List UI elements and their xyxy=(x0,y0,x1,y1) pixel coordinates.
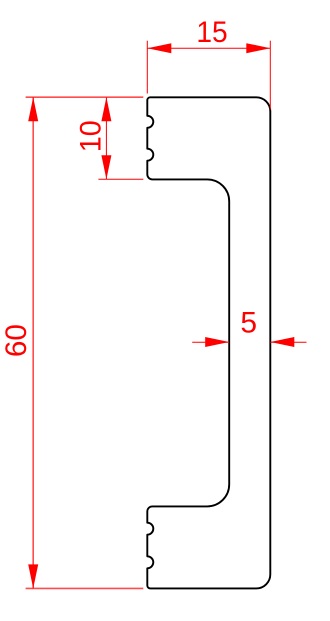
svg-text:60: 60 xyxy=(0,324,33,357)
svg-text:15: 15 xyxy=(196,16,227,49)
svg-text:5: 5 xyxy=(240,306,257,339)
svg-text:10: 10 xyxy=(74,120,107,152)
